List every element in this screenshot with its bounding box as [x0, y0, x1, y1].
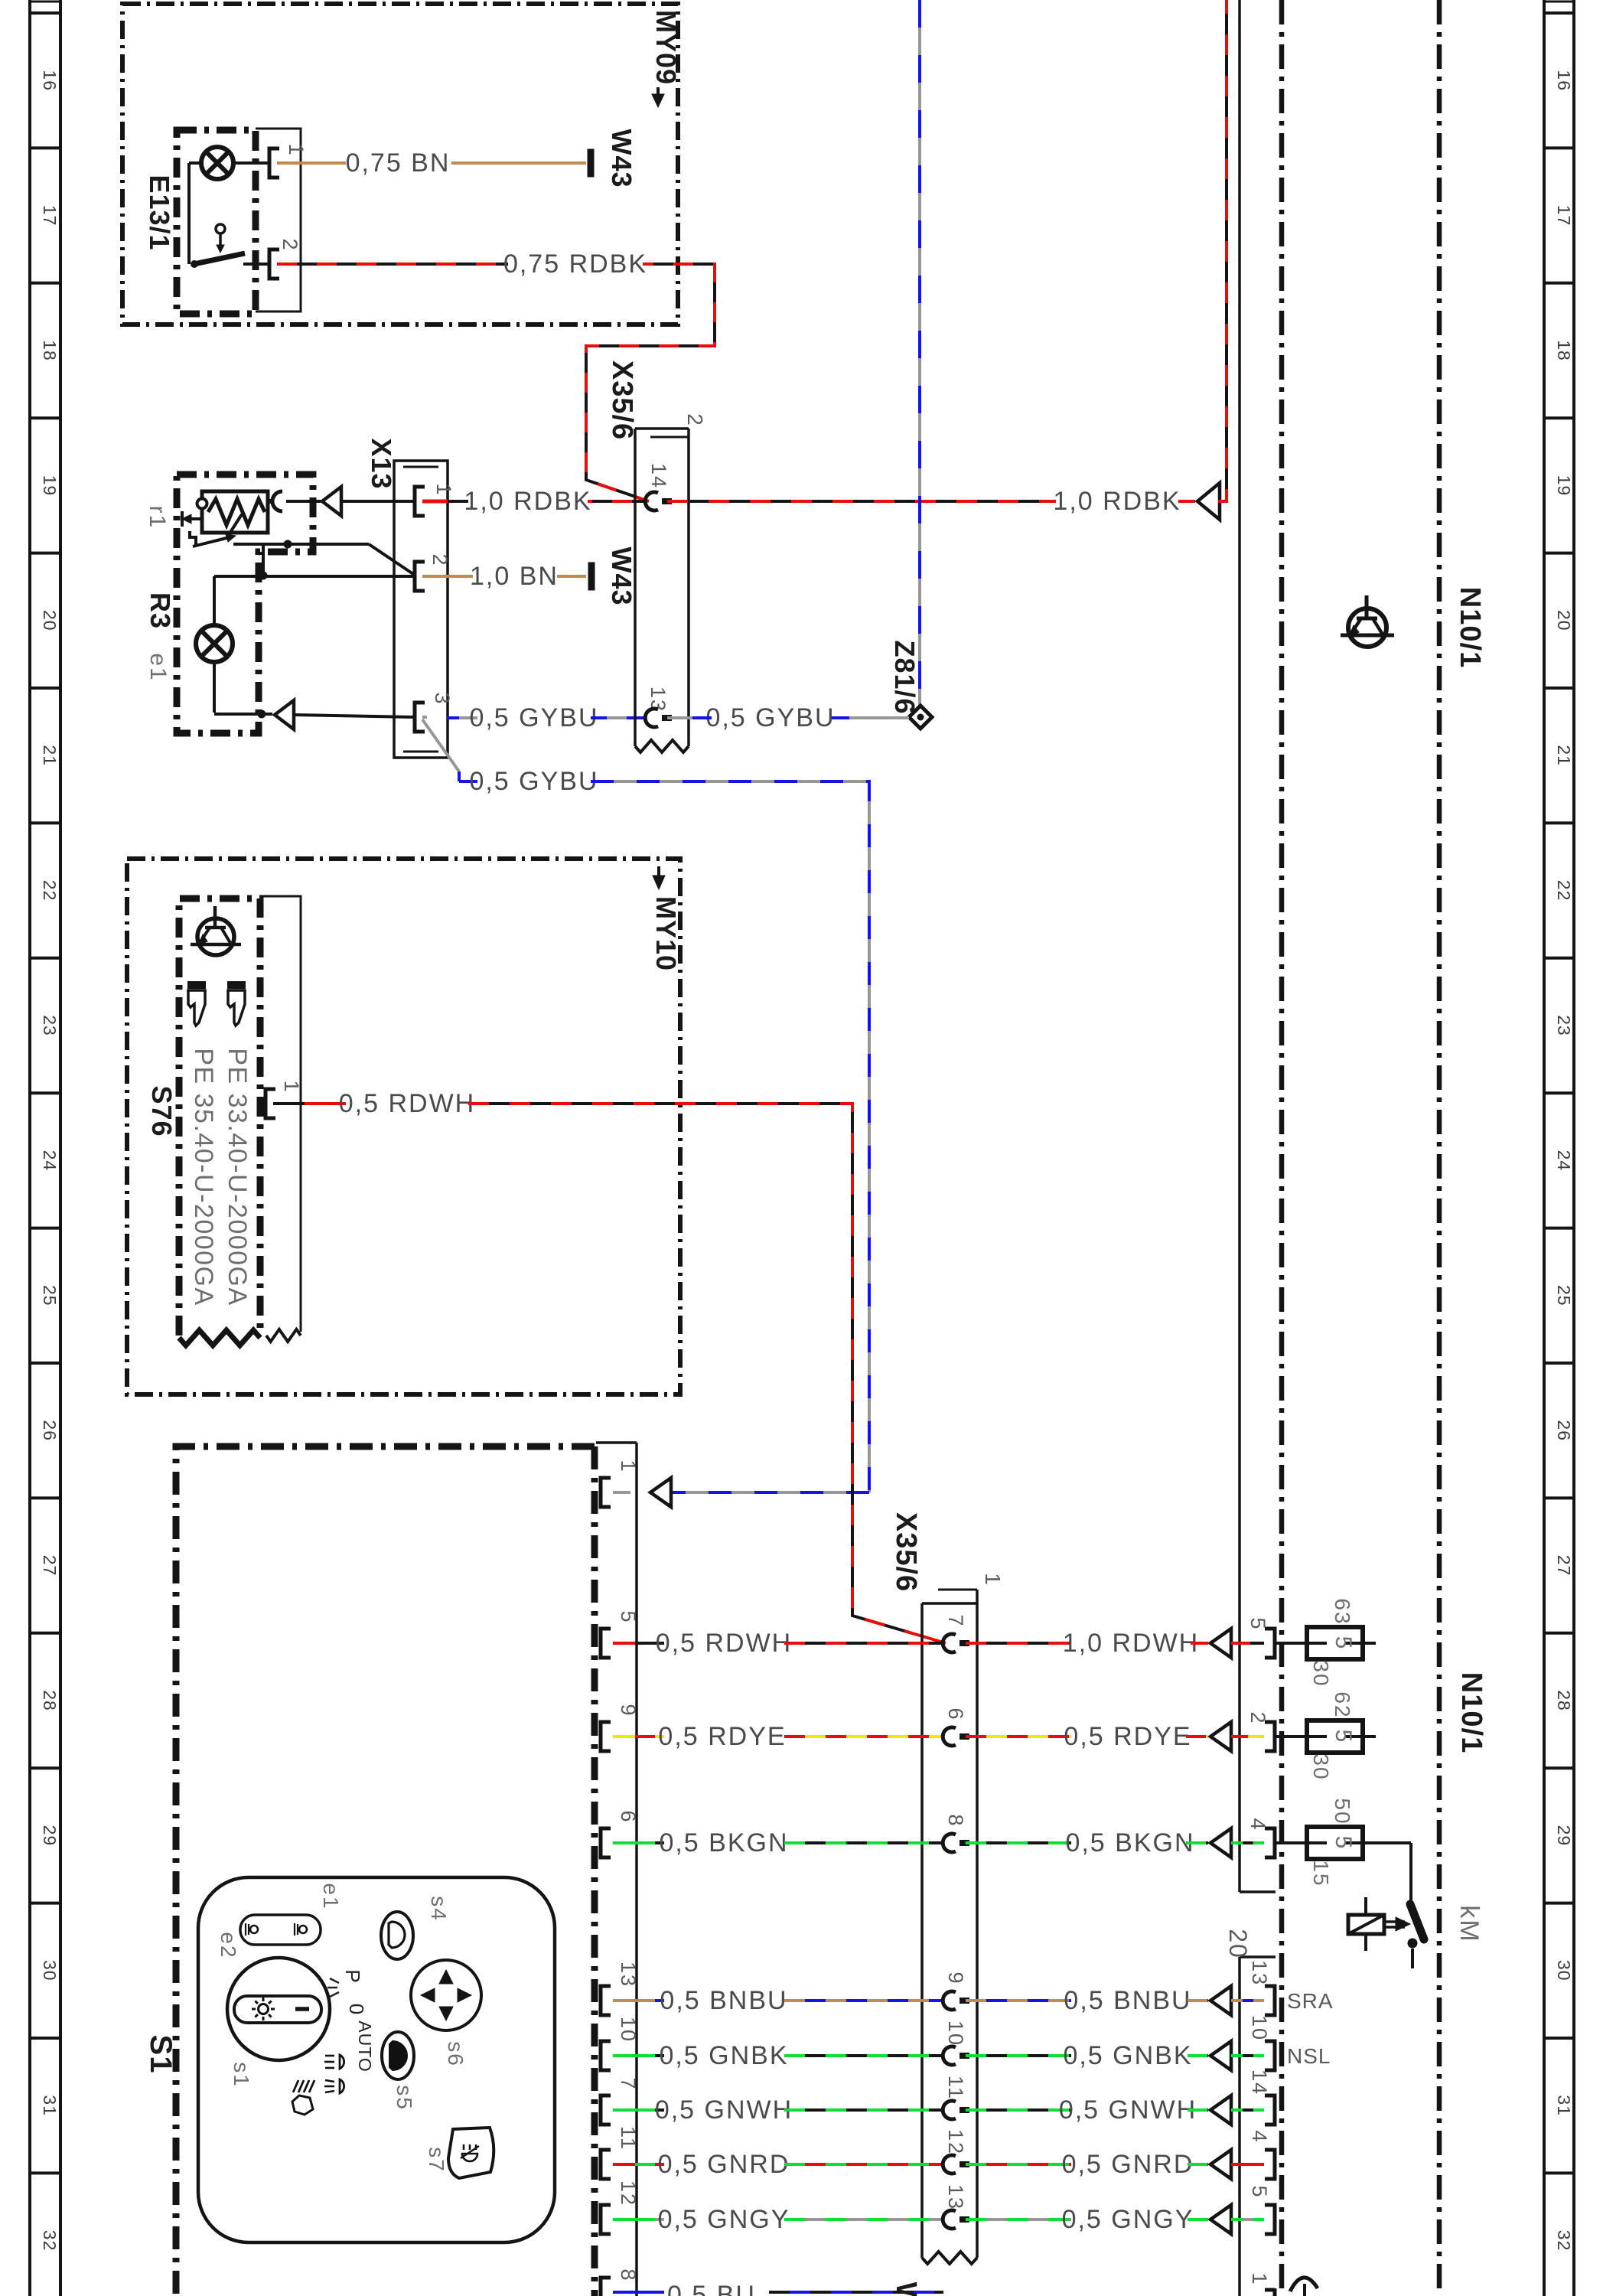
button s4	[381, 1912, 413, 1959]
wire 0,5 BKGN (X35/6 to N10/1-4)	[966, 1841, 1071, 1844]
svg-text:7: 7	[944, 1614, 967, 1627]
wire 0,5 GNGY (X35/6 to N10/1)	[966, 2218, 1071, 2221]
svg-text:1: 1	[617, 1459, 640, 1473]
arrow MY10	[657, 866, 660, 882]
svg-text:16: 16	[1554, 70, 1574, 91]
svg-text:AUTO: AUTO	[355, 2020, 375, 2072]
svg-text:X13: X13	[366, 438, 397, 489]
ruler band left	[28, 0, 31, 2296]
wire 1,0 BN	[422, 575, 473, 578]
svg-text:29: 29	[40, 1825, 60, 1847]
svg-text:18: 18	[1554, 340, 1574, 361]
component box E13/1	[177, 130, 256, 314]
svg-text:31: 31	[1554, 2095, 1574, 2116]
svg-text:P: P	[341, 1969, 364, 1984]
wire 0,5 BNBU (S1 to X35/6)	[613, 1999, 635, 2002]
arrow to N10/1	[1197, 483, 1220, 520]
svg-text:0,5 GNBK: 0,5 GNBK	[659, 2041, 788, 2070]
svg-text:24: 24	[1554, 1150, 1574, 1172]
svg-text:9: 9	[944, 1971, 967, 1985]
svg-text:11: 11	[944, 2076, 967, 2100]
svg-text:5: 5	[1246, 1617, 1269, 1630]
pin 2 of E13/1	[269, 249, 279, 279]
svg-text:21: 21	[40, 745, 60, 766]
svg-text:22: 22	[40, 880, 60, 902]
icon parking left	[246, 1923, 258, 1936]
svg-text:9: 9	[617, 1704, 640, 1717]
svg-text:0,5 BNBU: 0,5 BNBU	[1064, 1986, 1191, 2015]
wire 0,5 GYBU vertical	[918, 0, 921, 707]
svg-text:27: 27	[40, 1555, 60, 1577]
pin 9 of S1	[601, 1722, 611, 1751]
svg-text:e1: e1	[319, 1883, 343, 1910]
svg-text:30: 30	[1554, 1960, 1574, 1981]
svg-text:13: 13	[617, 1962, 640, 1988]
wire lamp to pin 1	[233, 161, 269, 165]
component box R3	[177, 475, 313, 733]
wire 0,5 RDYE (S1 to X35/6)	[613, 1735, 635, 1738]
svg-text:14: 14	[1248, 2069, 1271, 2095]
svg-text:17: 17	[1554, 205, 1574, 227]
svg-text:13: 13	[1248, 1960, 1271, 1986]
svg-text:20: 20	[40, 610, 60, 631]
svg-text:8: 8	[617, 2268, 640, 2281]
icon low beam	[325, 2080, 334, 2082]
icon position light	[325, 2055, 334, 2057]
svg-text:10: 10	[1248, 2015, 1271, 2041]
svg-text:0,5 GYBU: 0,5 GYBU	[469, 767, 598, 796]
S1 connector strip	[635, 1443, 638, 2296]
svg-text:s4: s4	[427, 1896, 451, 1922]
svg-text:12: 12	[617, 2180, 640, 2206]
node Z81/6	[909, 706, 932, 729]
svg-text:N10/1: N10/1	[1455, 1672, 1487, 1753]
svg-text:0,75 BN: 0,75 BN	[346, 148, 451, 178]
icon sun	[252, 1998, 275, 2020]
N10/1 connector strip lower (20)	[1238, 1957, 1241, 2296]
variable arrow r1	[193, 537, 230, 546]
symbol partial at pin 1	[1290, 2278, 1318, 2291]
pin 13 of N10/1	[1265, 1986, 1275, 2015]
control unit N10/1 right border	[1437, 0, 1442, 2296]
connector X13	[394, 461, 448, 758]
fuse 50 output to relay	[1363, 1841, 1411, 1844]
svg-text:12: 12	[944, 2129, 967, 2155]
svg-text:20: 20	[1554, 610, 1574, 631]
wire 1,0 RDWH (X35/6 to N10/1-5)	[966, 1642, 1071, 1645]
svg-text:X35/6: X35/6	[890, 1512, 922, 1592]
svg-text:0,5 GYBU: 0,5 GYBU	[469, 703, 598, 732]
pin 13 of S1	[601, 1986, 611, 2015]
svg-text:23: 23	[1554, 1015, 1574, 1036]
e1/e2 capsule	[240, 1915, 321, 1945]
svg-text:28: 28	[40, 1690, 60, 1711]
pin 7 of S1	[601, 2095, 611, 2125]
svg-text:31: 31	[40, 2095, 60, 2116]
wire 0,5 GYBU (branch to S1-1)	[459, 780, 477, 783]
button s5	[382, 2032, 414, 2079]
svg-text:W: W	[890, 2282, 922, 2296]
svg-text:22: 22	[1554, 880, 1574, 902]
pin 4 of N10/1	[1265, 1828, 1275, 1857]
wire 0,5 GNBK (X35/6 to N10/1)	[966, 2054, 1071, 2057]
svg-text:27: 27	[1554, 1555, 1574, 1577]
svg-text:0,5 BKGN: 0,5 BKGN	[659, 1828, 788, 1857]
svg-text:0,5 RDWH: 0,5 RDWH	[339, 1089, 475, 1118]
svg-text:30: 30	[1309, 1753, 1333, 1780]
svg-text:50: 50	[1331, 1798, 1354, 1825]
svg-text:20: 20	[1224, 1929, 1252, 1959]
svg-text:SRA: SRA	[1287, 1989, 1334, 2013]
svg-text:0,5 RDYE: 0,5 RDYE	[1064, 1722, 1191, 1751]
svg-text:1: 1	[981, 1573, 1005, 1587]
svg-text:29: 29	[1554, 1825, 1574, 1847]
svg-text:16: 16	[40, 70, 60, 91]
S1 switch panel	[198, 1877, 555, 2242]
svg-text:X35/6: X35/6	[606, 360, 638, 440]
fuse 62/30	[1275, 1735, 1376, 1738]
svg-text:62: 62	[1331, 1691, 1354, 1718]
pin 1 of X13	[415, 487, 425, 516]
svg-text:S76: S76	[146, 1085, 178, 1137]
svg-text:s7: s7	[425, 2147, 448, 2173]
wire lamp left leg	[189, 161, 201, 165]
fuse 63/30	[1275, 1642, 1376, 1645]
svg-text:PE 35.40-U-2000GA: PE 35.40-U-2000GA	[189, 1048, 218, 1306]
svg-text:4: 4	[1246, 1818, 1269, 1831]
arrow to S1 pin1	[650, 1491, 666, 1494]
svg-text:6: 6	[944, 1707, 967, 1720]
rheostat r1	[202, 491, 268, 533]
svg-text:5: 5	[1248, 2185, 1271, 2198]
svg-text:1,0 RDBK: 1,0 RDBK	[1053, 487, 1181, 516]
wire 0,5 GNWH (X35/6 to N10/1)	[966, 2108, 1071, 2112]
arrow	[322, 487, 341, 516]
svg-text:11: 11	[617, 2126, 640, 2151]
wire 0,75 BN	[277, 161, 346, 165]
svg-text:21: 21	[1554, 745, 1574, 766]
svg-text:2: 2	[683, 413, 707, 427]
svg-text:2: 2	[279, 238, 301, 251]
svg-text:PE 33.40-U-2000GA: PE 33.40-U-2000GA	[223, 1048, 252, 1306]
svg-text:0,5 BNBU: 0,5 BNBU	[660, 1986, 787, 2015]
svg-text:0,5 GNRD: 0,5 GNRD	[658, 2150, 790, 2179]
transistor icon S76	[197, 918, 234, 955]
svg-text:0,5 BU: 0,5 BU	[667, 2281, 756, 2296]
pin 5 of N10/1	[1265, 1629, 1275, 1658]
N10/1 connector strip upper	[1238, 0, 1241, 1892]
svg-text:R3: R3	[145, 592, 176, 629]
icon off-dash	[295, 2007, 309, 2011]
svg-text:6: 6	[617, 1810, 640, 1823]
svg-text:0,5 GNGY: 0,5 GNGY	[658, 2205, 790, 2234]
pin 4 of N10/1	[1265, 2150, 1275, 2179]
lamp e1 of R3	[196, 625, 233, 662]
svg-text:5: 5	[1331, 1730, 1356, 1744]
switch of E13/1	[191, 260, 198, 268]
variant box MY10	[127, 859, 680, 1394]
svg-text:1: 1	[432, 483, 455, 496]
svg-text:s1: s1	[230, 2062, 253, 2088]
svg-text:W43: W43	[606, 546, 637, 605]
wire 0,5 GNRD (X35/6 to N10/1)	[966, 2163, 1071, 2166]
ground W43 (mid)	[588, 563, 595, 590]
svg-text:24: 24	[40, 1150, 60, 1172]
svg-text:4: 4	[1248, 2130, 1271, 2143]
connector X35/6 (1)	[920, 1603, 924, 2258]
svg-text:0,5 GNBK: 0,5 GNBK	[1063, 2041, 1192, 2070]
svg-text:MY09: MY09	[650, 10, 682, 85]
svg-text:17: 17	[40, 205, 60, 227]
svg-text:25: 25	[40, 1285, 60, 1306]
pin 10 of N10/1	[1265, 2041, 1275, 2070]
svg-text:26: 26	[40, 1420, 60, 1441]
svg-text:Z81/6: Z81/6	[889, 640, 920, 714]
pin 1 of S1	[601, 1478, 611, 1507]
svg-text:2: 2	[1246, 1711, 1269, 1724]
pin 6 of S1	[601, 1828, 611, 1857]
svg-text:5: 5	[617, 1610, 640, 1623]
svg-text:63: 63	[1331, 1598, 1354, 1625]
svg-text:N10/1: N10/1	[1454, 587, 1486, 668]
svg-text:0: 0	[345, 2004, 368, 2016]
svg-text:3: 3	[431, 692, 454, 705]
pin 1 of S76	[266, 1089, 275, 1118]
wire 0,5 BU (partial, S1-8)	[613, 2291, 664, 2294]
S76 connector bar	[260, 896, 301, 1332]
contact r1 out	[268, 499, 274, 504]
svg-text:32: 32	[40, 2230, 60, 2252]
svg-text:MY10: MY10	[650, 896, 682, 971]
svg-text:W43: W43	[606, 129, 637, 188]
svg-text:0,5 GNGY: 0,5 GNGY	[1062, 2205, 1194, 2234]
svg-text:25: 25	[1554, 1285, 1574, 1306]
wire 0,75 RDBK	[277, 263, 508, 266]
wire 0,5 RDWH (S76)	[273, 1102, 305, 1105]
junction	[284, 540, 292, 549]
svg-text:1,0 RDWH: 1,0 RDWH	[1063, 1629, 1199, 1658]
pin 1 of E13/1	[269, 148, 279, 178]
button s7	[448, 2128, 494, 2178]
pin 5 of S1	[601, 1629, 611, 1658]
svg-text:1: 1	[280, 1080, 303, 1093]
svg-text:5: 5	[1331, 1636, 1356, 1651]
wire 0,5 GNBK (S1 to X35/6)	[613, 2054, 635, 2057]
E13/1 connector bar	[256, 129, 301, 311]
ground W43 (top)	[588, 149, 594, 177]
svg-text:0,5 GYBU: 0,5 GYBU	[705, 703, 835, 732]
transistor icon N10/1	[1348, 608, 1386, 647]
icon front fog	[292, 2095, 313, 2115]
svg-text:0,5 GNRD: 0,5 GNRD	[1062, 2150, 1194, 2179]
svg-text:30: 30	[40, 1960, 60, 1981]
svg-text:10: 10	[944, 2020, 967, 2047]
svg-text:0,5 BKGN: 0,5 BKGN	[1065, 1828, 1194, 1857]
R3 internal wiring to pin 2	[233, 543, 369, 546]
svg-text:8: 8	[944, 1814, 967, 1827]
svg-text:0,75 RDBK: 0,75 RDBK	[503, 249, 647, 279]
svg-text:NSL: NSL	[1287, 2044, 1331, 2068]
control unit N10/1 left border	[1279, 0, 1285, 2296]
svg-text:E13/1: E13/1	[144, 174, 175, 250]
svg-text:kM: kM	[1455, 1905, 1484, 1942]
wire 1,0 RDBK left	[448, 500, 468, 503]
adjuster s6	[411, 1960, 481, 2030]
wire 1,0 RDBK long	[667, 500, 1056, 503]
icon parking right	[295, 1923, 307, 1936]
svg-text:1,0 BN: 1,0 BN	[470, 562, 559, 591]
svg-text:23: 23	[40, 1015, 60, 1036]
pin 5 of N10/1	[1265, 2205, 1275, 2234]
svg-text:5: 5	[1331, 1836, 1356, 1851]
wire 0,5 GNRD (S1 to X35/6)	[613, 2163, 635, 2166]
pin 14 of N10/1	[1265, 2095, 1275, 2125]
svg-text:28: 28	[1554, 1690, 1574, 1711]
lamp e of E13/1	[201, 147, 233, 179]
pin 10 of S1	[601, 2041, 611, 2070]
wiper arrow r1	[187, 517, 200, 520]
junction	[258, 710, 266, 719]
variant box MY09	[122, 4, 678, 325]
hand icon 1	[187, 981, 206, 1026]
svg-text:18: 18	[40, 340, 60, 361]
arrow	[275, 700, 294, 729]
pin 2 of X13	[415, 562, 425, 591]
svg-text:26: 26	[1554, 1420, 1574, 1441]
wire 0,5 GYBU (pin3 to X35/6-13)	[422, 716, 427, 719]
wire 0,5 RDWH (S1 to X35/6)	[613, 1642, 635, 1645]
pin 11 of S1	[601, 2150, 611, 2179]
svg-text:0,5 GNWH: 0,5 GNWH	[1059, 2095, 1197, 2125]
hand icon 2	[227, 981, 246, 1026]
svg-text:2: 2	[428, 553, 451, 566]
connector X35/6 (2)	[634, 429, 637, 746]
branch diagonal GYBU	[422, 719, 459, 771]
svg-text:19: 19	[40, 475, 60, 497]
wire 0,5 RDYE (X35/6 to N10/1-2)	[966, 1735, 1071, 1738]
ruler band right	[1543, 0, 1546, 2296]
wire 0,5 GNGY (S1 to X35/6)	[613, 2218, 635, 2221]
pin 1 bracket partial	[1265, 2288, 1275, 2292]
wire 0,5 GYBU (Z81/6 left)	[830, 716, 909, 719]
svg-text:S1: S1	[144, 2035, 178, 2074]
arrow MY09	[657, 87, 660, 99]
svg-text:15: 15	[1309, 1860, 1333, 1887]
svg-text:1: 1	[285, 143, 308, 156]
fuse 50/15	[1275, 1841, 1376, 1844]
wire 0,5 BNBU (X35/6 to N10/1)	[966, 1999, 1071, 2002]
svg-text:7: 7	[617, 2077, 640, 2090]
wire 0,5 BKGN (S1 to X35/6)	[613, 1841, 635, 1844]
svg-text:e2: e2	[217, 1932, 240, 1958]
relay coil kM	[1364, 1897, 1367, 1951]
svg-text:e1: e1	[145, 653, 171, 681]
component box S76	[179, 899, 260, 1336]
component box S1	[176, 1446, 595, 2296]
svg-text:10: 10	[617, 2017, 640, 2043]
svg-text:13: 13	[944, 2184, 967, 2210]
wire r1 to X13 pin1	[286, 500, 321, 503]
svg-text:s5: s5	[393, 2085, 416, 2111]
svg-text:1: 1	[1248, 2272, 1271, 2285]
relay contact kM	[1384, 1920, 1405, 1923]
pin 8 of S1	[601, 2278, 611, 2296]
pin 2 of N10/1	[1265, 1722, 1275, 1751]
junction	[259, 572, 268, 580]
svg-text:0,5 RDYE: 0,5 RDYE	[658, 1722, 786, 1751]
svg-text:r1: r1	[145, 506, 170, 530]
svg-text:0,5 GNWH: 0,5 GNWH	[655, 2095, 793, 2125]
svg-text:s6: s6	[444, 2041, 468, 2067]
svg-text:30: 30	[1309, 1660, 1333, 1687]
svg-text:19: 19	[1554, 475, 1574, 497]
rotary knob s1	[227, 1958, 330, 2060]
wire 0,5 GNWH (S1 to X35/6)	[613, 2108, 635, 2112]
svg-text:14: 14	[647, 463, 670, 489]
pin 3 of X13	[415, 703, 425, 732]
pin 12 of S1	[601, 2205, 611, 2234]
svg-text:1,0 RDBK: 1,0 RDBK	[464, 487, 591, 516]
svg-text:32: 32	[1554, 2230, 1574, 2252]
svg-text:0,5 RDWH: 0,5 RDWH	[656, 1629, 792, 1658]
